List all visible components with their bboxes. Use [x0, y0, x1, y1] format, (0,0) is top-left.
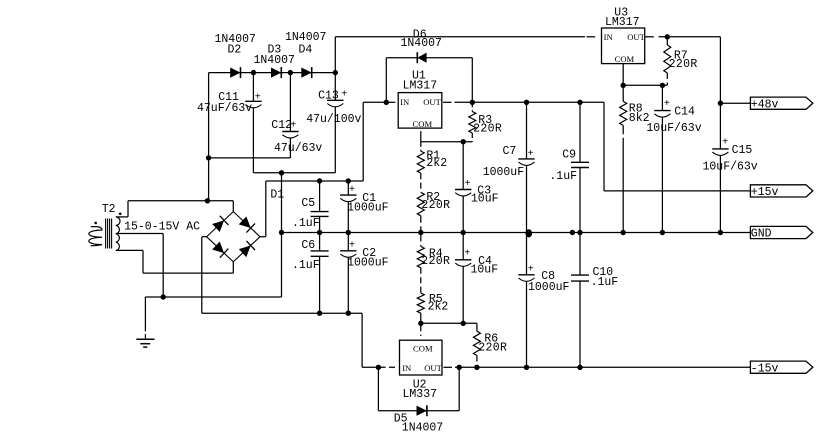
- resistor R7: [664, 45, 671, 73]
- svg-text:+48v: +48v: [751, 98, 779, 111]
- capacitor C8 bottom lead: [526, 281, 528, 367]
- wire U2 COM row: [421, 322, 477, 324]
- node R8 ground junction: [621, 230, 626, 235]
- node R7 top junction: [665, 34, 670, 39]
- svg-text:C15: C15: [732, 144, 753, 157]
- wire bridge left drop (negative): [201, 237, 203, 314]
- resistor R6 bottom lead: [476, 356, 478, 368]
- svg-text:1000uF: 1000uF: [347, 202, 389, 215]
- svg-text:47u/100v: 47u/100v: [306, 113, 361, 126]
- svg-text:1N4007: 1N4007: [285, 31, 326, 44]
- svg-text:+: +: [349, 185, 355, 196]
- svg-text:220R: 220R: [478, 342, 507, 355]
- regulator U3 body: [602, 28, 645, 64]
- svg-text:C9: C9: [562, 149, 576, 162]
- svg-text:COM: COM: [413, 119, 433, 129]
- svg-text:GND: GND: [751, 228, 772, 241]
- resistor R6 top lead: [476, 323, 478, 331]
- capacitor C4 lead: [462, 233, 464, 260]
- wire U3 COM pin: [622, 64, 624, 86]
- svg-text:D1: D1: [270, 189, 284, 202]
- node C2 bottom junction: [346, 311, 351, 316]
- svg-text:1N4007: 1N4007: [401, 37, 442, 50]
- wire +48v tap: [720, 102, 750, 104]
- node C6 bottom junction: [317, 311, 322, 316]
- svg-text:LM317: LM317: [403, 80, 438, 93]
- node D2 cathode / C11 junction: [251, 70, 256, 75]
- capacitor C11 lead: [252, 73, 254, 102]
- resistor R6: [473, 331, 480, 355]
- svg-text:+: +: [528, 265, 534, 276]
- svg-text:IN: IN: [400, 97, 410, 107]
- regulator U2 body: [400, 340, 443, 375]
- bridge rectifier D1 diamond: [207, 212, 260, 262]
- capacitor C15 plates: [712, 148, 728, 150]
- wire R3 to COM link: [421, 141, 473, 143]
- diode D5: [417, 406, 427, 416]
- svg-text:220R: 220R: [473, 123, 502, 136]
- diode D6: [417, 53, 426, 63]
- capacitor C5-C6 link: [319, 216, 321, 251]
- resistor R4: [417, 246, 424, 267]
- svg-text:OUT: OUT: [627, 32, 645, 42]
- svg-text:+: +: [465, 179, 471, 190]
- capacitor C2 plates: [340, 250, 356, 252]
- svg-text:10uF/63v: 10uF/63v: [703, 160, 758, 173]
- svg-text:+15v: +15v: [751, 186, 779, 199]
- svg-text:IN: IN: [604, 32, 614, 42]
- svg-text:220R: 220R: [421, 255, 450, 268]
- svg-text:+: +: [341, 89, 347, 100]
- svg-text:15-0-15V AC: 15-0-15V AC: [124, 220, 200, 233]
- svg-text:10uF/63v: 10uF/63v: [646, 122, 701, 135]
- capacitor C6 bottom lead: [319, 256, 321, 313]
- svg-text:2k2: 2k2: [426, 157, 447, 170]
- wire secondary bottom drop: [142, 250, 144, 273]
- capacitor C4 plates: [455, 259, 471, 261]
- output terminal +15v: [750, 185, 812, 197]
- wire bridge bottom stub: [232, 262, 234, 273]
- svg-text:+: +: [664, 99, 670, 110]
- node C1 top junction: [346, 178, 351, 183]
- capacitor C14 lower lead: [661, 117, 663, 232]
- wire center tap drop: [162, 234, 164, 298]
- svg-text:IN: IN: [402, 363, 412, 373]
- svg-text:+: +: [464, 249, 470, 260]
- output terminal -15v: [750, 361, 812, 373]
- capacitor C13 lower lead: [334, 107, 336, 173]
- svg-text:47uF/63v: 47uF/63v: [197, 102, 252, 115]
- resistor R8 bottom lead: [622, 125, 624, 134]
- wire +48v drop: [719, 37, 721, 149]
- capacitor C11 lower lead: [252, 108, 254, 173]
- wire D6 right drop: [471, 58, 473, 103]
- capacitor C4 lower lead: [462, 266, 464, 323]
- wire U3 COM row: [623, 84, 667, 86]
- node R6 bottom junction: [474, 365, 479, 370]
- capacitor C7-C8 link: [526, 165, 528, 274]
- resistor R1 top lead: [420, 142, 422, 151]
- svg-text:C5: C5: [301, 197, 315, 210]
- diode D2: [230, 68, 240, 78]
- wire corner up: [127, 201, 129, 217]
- node stray junction dot: [570, 230, 575, 235]
- capacitor C12 lower lead: [289, 138, 291, 158]
- wire U3 OUT rail: [659, 36, 721, 38]
- svg-text:+: +: [349, 241, 355, 252]
- capacitor C13 plates: [327, 99, 343, 101]
- svg-text:C12: C12: [271, 119, 292, 132]
- capacitor C1-C2 link: [347, 202, 349, 251]
- capacitor C1 lead: [347, 181, 349, 195]
- node C9/C10 junction: [577, 230, 582, 235]
- resistor R3 top lead: [471, 102, 473, 111]
- node D5 right junction: [457, 365, 462, 370]
- resistor R7 top lead: [666, 37, 668, 45]
- capacitor C2 bottom lead: [347, 257, 349, 313]
- resistor R5: [417, 293, 424, 313]
- svg-text:-15v: -15v: [751, 362, 779, 375]
- svg-text:1N4007: 1N4007: [254, 54, 295, 67]
- svg-text:1000uF: 1000uF: [483, 166, 525, 179]
- resistor R8 top lead: [622, 85, 624, 101]
- wire bridge right stub: [260, 236, 266, 238]
- svg-text:+: +: [528, 149, 534, 160]
- capacitor C12 lead: [289, 73, 291, 132]
- capacitor C3 lower lead: [462, 196, 464, 233]
- node C5 top junction: [317, 178, 322, 183]
- transformer T2 secondary phase dot: [119, 213, 122, 216]
- wire ground rail: [282, 232, 751, 234]
- wire -15v rail: [455, 366, 750, 368]
- svg-text:220R: 220R: [669, 58, 698, 71]
- capacitor C8 plates: [518, 274, 534, 276]
- wire bridge right riser (positive): [265, 181, 267, 237]
- wire +15v corner drop: [603, 102, 605, 191]
- transformer T2 primary phase dot: [94, 222, 97, 225]
- bridge diode D1a (left-top arm): [212, 220, 224, 232]
- resistor R4 top lead: [420, 233, 422, 247]
- capacitor C5 plates: [311, 211, 329, 213]
- wire bridge left stub: [202, 236, 207, 238]
- diode D4: [301, 68, 311, 78]
- wire R4-R5 link: [420, 268, 422, 293]
- node U1 IN junction: [384, 100, 389, 105]
- transformer T2 primary winding: [89, 227, 102, 246]
- wire ground link: [145, 296, 281, 298]
- svg-text:OUT: OUT: [423, 97, 441, 107]
- capacitor C5 lead: [319, 181, 321, 212]
- node C12 return junction: [206, 155, 211, 160]
- bridge diode D1c (left-bottom arm): [212, 242, 224, 254]
- wire U1 OUT rail: [455, 101, 605, 103]
- node C7 top junction: [524, 100, 529, 105]
- wire negative drop to U2: [361, 313, 363, 367]
- capacitor C12 plates: [282, 131, 298, 133]
- node C14 ground junction: [660, 230, 665, 235]
- resistor R3 bottom lead: [471, 133, 473, 142]
- wire center drop to ground rail: [281, 173, 283, 297]
- svg-text:10uF: 10uF: [471, 192, 499, 205]
- node C4 bottom junction: [461, 321, 466, 326]
- capacitor C9 plates: [571, 161, 589, 163]
- node C9 top junction: [577, 100, 582, 105]
- node U1 OUT / R3 / D6 junction: [470, 100, 475, 105]
- node C3 top junction: [461, 139, 466, 144]
- capacitor C10 bottom lead: [579, 281, 581, 367]
- wire U1 COM pin: [420, 131, 422, 142]
- bridge diode D1b (top-right arm): [239, 216, 251, 228]
- wire U2 IN side rail: [362, 366, 378, 368]
- wire D6 line: [386, 57, 472, 59]
- wire C12 return: [209, 157, 291, 159]
- capacitor C7 lead: [526, 102, 528, 159]
- resistor R8: [620, 101, 627, 125]
- svg-text:COM: COM: [615, 54, 635, 64]
- svg-text:C14: C14: [674, 106, 695, 119]
- svg-text:+: +: [722, 137, 728, 148]
- wire R1-R2 link: [420, 173, 422, 192]
- capacitor C3 plates: [455, 189, 471, 191]
- capacitor C10 plates: [571, 274, 589, 276]
- svg-text:47u/63v: 47u/63v: [274, 142, 322, 155]
- svg-text:.1uF: .1uF: [549, 170, 577, 183]
- node R8 top junction: [621, 83, 626, 88]
- node transformer top / D2 feed junction: [205, 198, 210, 203]
- wire positive DC rail: [266, 180, 363, 182]
- svg-text:T2: T2: [102, 203, 116, 216]
- wire D5 left drop: [377, 367, 379, 410]
- ground symbol: [136, 338, 154, 340]
- svg-text:C13: C13: [318, 89, 339, 102]
- wire U3 IN pin dash: [587, 36, 596, 38]
- capacitor C6 plates: [311, 250, 329, 252]
- svg-text:1000uF: 1000uF: [347, 257, 389, 270]
- wire U1 IN pin stub: [388, 101, 396, 103]
- resistor R3: [469, 112, 476, 134]
- svg-text:1N4007: 1N4007: [402, 422, 443, 435]
- node C7/C8 junction (large): [526, 229, 533, 237]
- svg-text:D2: D2: [228, 43, 242, 56]
- svg-text:OUT: OUT: [424, 363, 442, 373]
- wire D5 bottom: [378, 410, 459, 412]
- wire center tap: [116, 233, 163, 235]
- transformer T2 core: [105, 219, 107, 249]
- bridge diode D1d (bottom-right arm): [239, 246, 251, 258]
- capacitor C7 plates: [518, 158, 534, 160]
- wire U2 COM pin: [420, 323, 422, 336]
- wire secondary bottom: [116, 249, 143, 251]
- wire U2 IN pin dash: [380, 366, 396, 368]
- svg-text:LM337: LM337: [403, 388, 438, 401]
- svg-text:C6: C6: [301, 239, 315, 252]
- wire bridge top stub: [232, 201, 234, 212]
- node D4 cathode / C13 junction: [333, 70, 338, 75]
- ground symbol stem: [144, 297, 146, 331]
- svg-text:.1uF: .1uF: [292, 217, 320, 230]
- wire transformer top rail: [128, 200, 233, 202]
- svg-text:2k2: 2k2: [428, 300, 449, 313]
- regulator U1 body: [398, 93, 442, 129]
- capacitor C9-C10 link: [579, 168, 581, 276]
- wire cap-loop bottom: [253, 172, 335, 174]
- diode D3: [271, 68, 281, 78]
- wire top rail corner: [334, 37, 336, 101]
- resistor R1: [417, 151, 424, 173]
- capacitor C14 lead: [661, 85, 663, 110]
- wire secondary top to corner: [116, 216, 128, 218]
- capacitor C3 lead: [462, 142, 464, 190]
- svg-text:.1uF: .1uF: [292, 259, 320, 272]
- svg-text:D4: D4: [299, 43, 313, 56]
- wire +15v rail: [604, 190, 750, 192]
- resistor R2 bottom lead: [420, 216, 422, 233]
- capacitor C15 lower lead: [719, 155, 721, 232]
- resistor R5 bottom lead: [420, 313, 422, 323]
- svg-text:LM317: LM317: [605, 16, 640, 29]
- wire D6 left riser: [385, 58, 387, 103]
- wire U1 feed riser: [362, 102, 364, 181]
- svg-text:.1uF: .1uF: [591, 276, 619, 289]
- svg-text:+: +: [255, 92, 261, 103]
- capacitor C1 plates: [340, 194, 356, 196]
- wire U3 OUT pin dash: [645, 36, 654, 38]
- capacitor C14 plates: [654, 110, 670, 112]
- node C14 top junction: [660, 83, 665, 88]
- wire top rail to U3 IN: [335, 36, 585, 38]
- node ground rail junctions: [279, 230, 284, 235]
- wire U1 OUT pin dash: [443, 101, 452, 103]
- wire left vertical to D2 anode: [208, 73, 210, 201]
- output terminal +48v: [750, 97, 812, 109]
- output terminal GND: [750, 226, 812, 238]
- node +48v tap junction: [718, 101, 723, 106]
- capacitor C11 plates: [245, 100, 261, 102]
- resistor R2: [417, 192, 424, 215]
- svg-text:COM: COM: [413, 344, 433, 354]
- node D5 left junction: [376, 365, 381, 370]
- node R5 / COM junction: [418, 321, 423, 326]
- node C15 ground junction: [718, 230, 723, 235]
- wire D2-D3-D4 chain: [209, 72, 336, 74]
- wire negative rail: [202, 312, 362, 314]
- node D3 cathode / C12 junction: [288, 70, 293, 75]
- svg-text:1000uF: 1000uF: [528, 281, 570, 294]
- svg-text:220R: 220R: [421, 199, 450, 212]
- node C10 bottom junction: [577, 365, 582, 370]
- svg-text:10uF: 10uF: [471, 263, 499, 276]
- transformer T2 secondary winding: [116, 217, 120, 251]
- wire U2 OUT pin dash: [444, 366, 453, 368]
- wire D5 right riser: [458, 367, 460, 410]
- capacitor C9 lead: [579, 102, 581, 162]
- node center tap / ground junction: [161, 294, 166, 299]
- wire U1 feed horizontal: [363, 101, 386, 103]
- wire bridge bottom link: [143, 272, 233, 274]
- svg-text:C7: C7: [503, 145, 517, 158]
- node cap-loop / center drop junction: [279, 170, 284, 175]
- resistor R7 bottom lead: [666, 73, 668, 85]
- node C8 bottom junction: [524, 365, 529, 370]
